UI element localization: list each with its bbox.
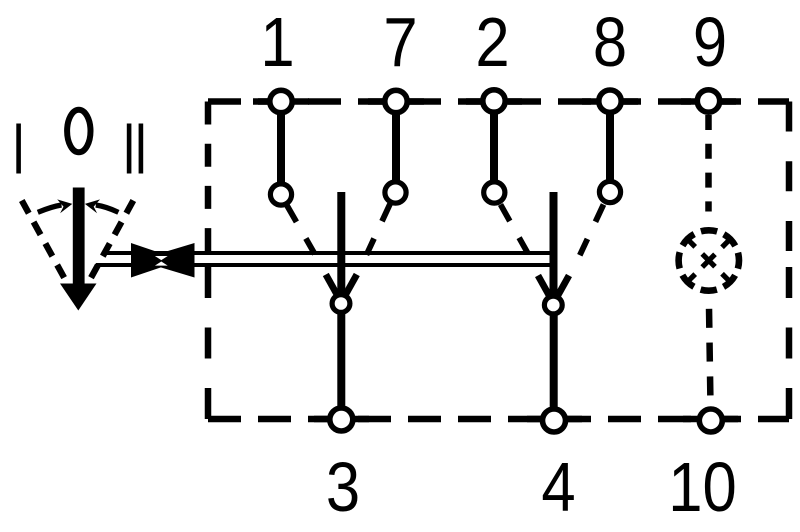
- contact fork left prong (right pivot): [538, 276, 550, 297]
- lever travel dashed line left: [22, 201, 67, 283]
- wire stubs on bottom edge at terminals: [314, 416, 738, 423]
- detent symbol left triangle: [131, 243, 182, 278]
- contact fork right prong (right pivot): [557, 276, 569, 297]
- dashed wire: terminal 9 down to lamp: [705, 115, 712, 212]
- contact circle under terminal 8: [599, 181, 620, 202]
- wire: terminal 8 to contact: [606, 112, 614, 180]
- position mark 0: [67, 110, 90, 153]
- switch body dashed box: bottom edge: [208, 416, 789, 423]
- dashed contact travel line from contact 2: [501, 205, 531, 259]
- curved arrow right head: [85, 199, 100, 213]
- terminal 1 circle: [270, 90, 292, 112]
- actuator bar bottom line: [96, 263, 554, 267]
- curved arrow right shaft: [96, 205, 119, 212]
- wire: terminal 1 to contact: [277, 112, 285, 183]
- detent symbol white hourglass: [155, 256, 168, 266]
- svg-text:7: 7: [383, 2, 417, 81]
- switch body dashed box: top edge: [208, 98, 789, 105]
- dashed contact travel line from contact 1: [287, 206, 317, 259]
- wire: terminal 7 to contact: [392, 112, 400, 181]
- movable contact pivot line (right, terminal 4): [550, 192, 558, 299]
- svg-text:2: 2: [475, 2, 509, 81]
- contact fork right prong (left pivot): [345, 275, 357, 296]
- dashed contact travel line from contact 8: [579, 205, 604, 259]
- contact circle under terminal 7: [385, 182, 406, 203]
- lever shaft: [73, 188, 85, 286]
- terminal 4 circle: [543, 409, 566, 432]
- contact circle under terminal 1: [270, 184, 291, 205]
- terminal 8 circle: [599, 90, 621, 112]
- svg-text:3: 3: [326, 447, 360, 526]
- terminal 3 circle: [330, 408, 353, 431]
- terminal 2 circle: [483, 90, 505, 112]
- svg-text:10: 10: [668, 447, 737, 526]
- lever travel dashed line right: [87, 201, 133, 286]
- lamp L: dashed X diagonal 2: [687, 239, 730, 282]
- wire: terminal 2 to contact: [490, 112, 498, 181]
- contact fork left prong (left pivot): [326, 275, 338, 296]
- movable contact pivot line (left, terminal 3): [337, 192, 345, 298]
- terminal 7 circle: [385, 90, 407, 112]
- switch body dashed box: left edge (upper): [205, 102, 212, 252]
- svg-text:9: 9: [693, 2, 727, 81]
- contact circle under terminal 2: [484, 182, 505, 203]
- lever arrowhead: [60, 284, 97, 311]
- wire stubs on top edge at terminals: [253, 98, 736, 105]
- actuator bar top line: [102, 251, 554, 255]
- wire: left pivot to terminal 3: [337, 312, 345, 408]
- position mark II: [127, 124, 132, 174]
- switch body dashed box: right edge (upper): [786, 102, 793, 252]
- lamp L: dashed X diagonal 1: [687, 239, 730, 282]
- switch body dashed box: left edge (lower): [205, 267, 212, 419]
- pivot contact circle (left): [332, 295, 350, 313]
- position mark I: [16, 124, 21, 174]
- terminal 9 circle: [697, 90, 719, 112]
- lamp L: dashed circle: [679, 230, 739, 290]
- dashed contact travel line from contact 7: [365, 204, 390, 258]
- svg-text:8: 8: [593, 2, 627, 81]
- terminal 10 circle: [699, 409, 722, 432]
- switch body dashed box: right edge (lower): [786, 267, 793, 419]
- actuator bar white gap: [96, 255, 557, 263]
- curved arrow left shaft: [38, 205, 62, 212]
- dashed wire: lamp down to terminal 10: [709, 294, 711, 406]
- pivot contact circle (right): [544, 296, 562, 314]
- wire: right pivot to terminal 4: [550, 313, 558, 409]
- detent symbol right triangle: [137, 243, 195, 278]
- svg-text:4: 4: [541, 447, 575, 526]
- svg-text:1: 1: [260, 2, 294, 81]
- curved arrow left head: [57, 199, 72, 213]
